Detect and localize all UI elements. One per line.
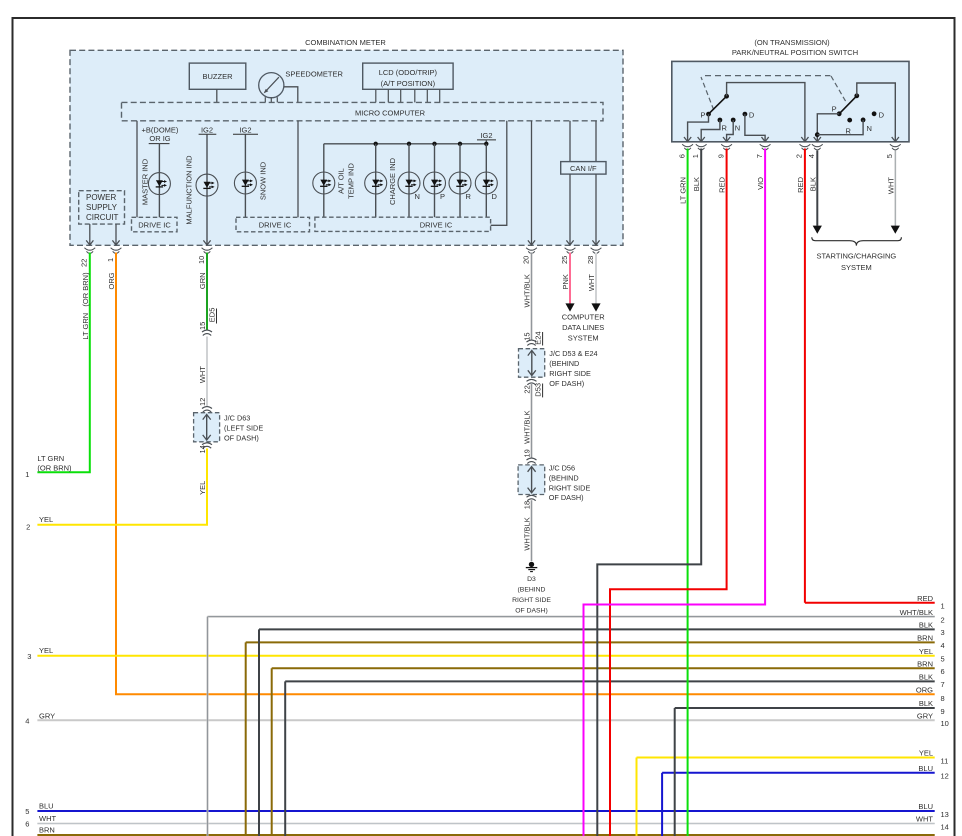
svg-text:7: 7 (941, 680, 945, 689)
wire VIO pin 7 long run (584, 149, 766, 836)
combination meter block (70, 50, 623, 245)
connector 12 (202, 407, 212, 412)
switch S1 (left) (724, 94, 729, 99)
svg-text:13: 13 (941, 810, 949, 819)
svg-text:MALFUNCTION IND: MALFUNCTION IND (185, 155, 194, 225)
svg-text:1: 1 (106, 258, 115, 262)
pin 20 combination meter (526, 248, 537, 254)
svg-text:E24: E24 (533, 331, 542, 344)
svg-text:COMBINATION METER: COMBINATION METER (305, 38, 386, 47)
wire YEL row 5 (37, 655, 934, 657)
wire CAN I/F pin 28 (595, 174, 597, 245)
wire LT GRN (OR BRN) pin 22 (37, 253, 89, 473)
connector 18 (527, 495, 537, 500)
terminal R (left) (718, 118, 723, 123)
drive IC 3 (315, 217, 491, 231)
wire BRN row 4 (246, 641, 935, 643)
svg-text:(BEHIND: (BEHIND (549, 359, 579, 368)
wire BRN row 6 (272, 667, 935, 669)
wire IG2 bus (324, 143, 487, 145)
terminal D (right, open) (872, 111, 877, 116)
svg-text:SYSTEM: SYSTEM (568, 334, 599, 343)
svg-text:WHT: WHT (886, 177, 895, 194)
junction block J/C D56 (518, 465, 545, 495)
svg-text:TEMP IND: TEMP IND (347, 163, 356, 199)
junction block J/C D53 & E24 (519, 349, 545, 378)
svg-text:P: P (440, 192, 445, 201)
wire vertical BLU row 12 (661, 773, 663, 836)
svg-text:RED: RED (917, 594, 933, 603)
svg-text:19: 19 (522, 449, 531, 457)
wire WHT pin 5 to starting/charging system (894, 151, 896, 226)
connector 19 (527, 458, 537, 463)
pin 2 park/neutral switch (801, 137, 808, 142)
wire PNK pin 25 (569, 253, 571, 304)
svg-text:GRN: GRN (198, 272, 207, 289)
svg-text:IG2: IG2 (480, 131, 492, 140)
switch S2 (right) (854, 93, 859, 98)
svg-text:RIGHT SIDE: RIGHT SIDE (512, 597, 551, 604)
svg-text:22: 22 (80, 259, 89, 267)
svg-text:A/T OIL: A/T OIL (337, 168, 346, 194)
pin 22 combination meter (84, 248, 95, 254)
svg-text:7: 7 (755, 154, 764, 158)
svg-text:DRIVE IC: DRIVE IC (259, 221, 292, 230)
svg-text:GRY: GRY (39, 712, 55, 721)
micro computer block (122, 102, 604, 120)
svg-text:WHT: WHT (916, 815, 933, 824)
pin 10 combination meter (202, 248, 213, 254)
svg-text:RIGHT SIDE: RIGHT SIDE (549, 483, 591, 492)
svg-text:R: R (466, 192, 472, 201)
LED master indicator (158, 144, 160, 218)
svg-text:9: 9 (716, 154, 725, 158)
svg-text:BLK: BLK (919, 673, 933, 682)
ground D3 (529, 562, 534, 567)
wire vertical YEL row 11 (636, 758, 638, 836)
svg-text:P: P (832, 105, 837, 114)
terminal P (right) (837, 111, 842, 116)
svg-text:SUPPLY: SUPPLY (86, 203, 118, 212)
svg-text:(A/T POSITION): (A/T POSITION) (381, 79, 436, 88)
wire micro computer to drive IC 2 (297, 121, 299, 218)
wire LT GRN pin 6 long vertical (687, 149, 689, 836)
svg-text:BLU: BLU (918, 764, 933, 773)
wire WHT row 14 (37, 823, 934, 825)
svg-text:14: 14 (941, 822, 949, 831)
svg-text:D: D (879, 110, 885, 119)
svg-text:PARK/NEUTRAL POSITION SWITCH: PARK/NEUTRAL POSITION SWITCH (732, 48, 858, 57)
svg-text:LT GRN (OR BRN): LT GRN (OR BRN) (81, 272, 90, 340)
svg-text:DATA LINES: DATA LINES (562, 323, 604, 332)
svg-text:MASTER IND: MASTER IND (141, 158, 150, 205)
wire micro computer to drive IC 3 (491, 121, 507, 226)
connector 22 / D53 (527, 379, 537, 384)
svg-text:YEL: YEL (39, 646, 53, 655)
svg-text:WHT: WHT (198, 366, 207, 383)
svg-text:YEL: YEL (919, 749, 933, 758)
svg-text:4: 4 (807, 154, 816, 158)
svg-text:WHT/BLK: WHT/BLK (523, 517, 532, 550)
svg-text:BLK: BLK (692, 177, 701, 191)
svg-text:2: 2 (941, 615, 945, 624)
connector 14 (202, 443, 212, 448)
terminal N (left) (731, 118, 736, 123)
LED malfunction indicator (206, 134, 208, 244)
svg-text:28: 28 (586, 256, 595, 264)
wire ORG pin 1 to row 8 (116, 253, 935, 695)
svg-text:D53: D53 (533, 383, 542, 397)
svg-text:BLK: BLK (919, 621, 933, 630)
wire speedometer to micro computer (284, 87, 298, 103)
wire BLK row 9 (675, 707, 935, 709)
LED D indicator (485, 144, 487, 217)
svg-text:1: 1 (25, 470, 29, 479)
svg-text:BRN: BRN (917, 634, 933, 643)
svg-text:STARTING/CHARGING: STARTING/CHARGING (817, 252, 897, 261)
pin 9 park/neutral switch (723, 137, 730, 142)
terminal P (left) (706, 112, 711, 117)
svg-text:15: 15 (198, 322, 207, 330)
svg-text:IG2: IG2 (239, 125, 251, 134)
wire WHT/BLK to ground D3 (531, 500, 533, 561)
wire YEL row 11 (637, 757, 935, 759)
svg-text:(OR BRN): (OR BRN) (37, 463, 72, 472)
wire GRN pin 10 (206, 253, 208, 331)
svg-text:12: 12 (198, 398, 207, 406)
wires LCD to micro computer (375, 89, 377, 102)
svg-text:5: 5 (941, 655, 945, 664)
wire WHT/BLK row 2 (208, 616, 935, 618)
wire micro computer to CAN I/F (569, 121, 571, 162)
svg-text:GRY: GRY (917, 712, 933, 721)
LED charge indicator (375, 144, 377, 217)
svg-text:VIO: VIO (756, 177, 765, 190)
svg-text:BRN: BRN (39, 826, 55, 835)
speedometer M1 (259, 73, 284, 98)
wire BLK pin 4 to starting/charging system (816, 151, 818, 226)
wire buzzer to micro computer (216, 89, 218, 102)
wire BLU row 13 (37, 810, 934, 812)
wire BLK row 7 (285, 680, 935, 682)
svg-text:ED5: ED5 (208, 308, 217, 323)
svg-text:3: 3 (941, 628, 945, 637)
svg-text:20: 20 (521, 256, 530, 264)
svg-text:1: 1 (941, 602, 945, 611)
svg-text:(ON TRANSMISSION): (ON TRANSMISSION) (754, 38, 830, 47)
switch linkage (dashed) (701, 77, 714, 110)
svg-text:YEL: YEL (919, 647, 933, 656)
svg-text:SNOW IND: SNOW IND (259, 161, 268, 200)
svg-text:PNK: PNK (561, 274, 570, 289)
svg-text:OF DASH): OF DASH) (515, 608, 547, 615)
svg-text:6: 6 (941, 667, 945, 676)
svg-text:D: D (492, 192, 498, 201)
pin 7 park/neutral switch (762, 137, 769, 142)
pin 1 park/neutral switch (698, 137, 705, 142)
svg-text:OF DASH): OF DASH) (224, 434, 259, 443)
svg-text:4: 4 (941, 641, 945, 650)
terminal R (right, open) (847, 118, 852, 123)
wire WHT pin 28 (595, 253, 597, 305)
wire vertical BLK row 7 (284, 681, 286, 836)
svg-text:BRN: BRN (917, 660, 933, 669)
svg-text:WHT/BLK: WHT/BLK (900, 608, 933, 617)
svg-text:YEL: YEL (39, 515, 53, 524)
svg-text:J/C D56: J/C D56 (549, 464, 575, 473)
svg-text:15: 15 (522, 332, 531, 340)
svg-text:CAN I/F: CAN I/F (570, 164, 597, 173)
junction block J/C D63 (194, 413, 220, 442)
svg-text:3: 3 (27, 652, 31, 661)
svg-text:SYSTEM: SYSTEM (841, 263, 872, 272)
wire micro computer pin 20 (531, 121, 533, 245)
wire BLU row 12 (662, 772, 935, 774)
connector 15 / E24 (527, 340, 537, 345)
wire power supply pin 1 (115, 224, 117, 245)
connector 15 / ED5 (202, 330, 212, 335)
svg-text:22: 22 (522, 385, 531, 393)
svg-text:OF DASH): OF DASH) (549, 493, 584, 502)
svg-text:10: 10 (197, 256, 206, 264)
pin 6 park/neutral switch (684, 137, 691, 142)
svg-text:BLU: BLU (918, 802, 933, 811)
wire WHT/BLK pin 20 (531, 253, 533, 341)
terminal D (left) (743, 112, 748, 117)
wire BLK row 3 (259, 628, 935, 630)
svg-text:6: 6 (25, 820, 29, 829)
wire vertical BLK row 3 (258, 629, 260, 836)
svg-text:+B(DOME): +B(DOME) (142, 125, 179, 134)
svg-text:DRIVE IC: DRIVE IC (138, 221, 171, 230)
svg-text:J/C D53 & E24: J/C D53 & E24 (549, 349, 597, 358)
svg-text:12: 12 (941, 772, 949, 781)
svg-text:2: 2 (795, 154, 804, 158)
pin 1 combination meter (111, 248, 122, 254)
pin 28 combination meter (591, 248, 602, 254)
svg-text:R: R (846, 126, 852, 135)
wire micro computer to drive IC 1 (136, 121, 138, 218)
svg-text:D3: D3 (527, 576, 536, 583)
svg-text:(LEFT SIDE: (LEFT SIDE (224, 424, 263, 433)
wire CAN I/F pin 25 (569, 174, 571, 245)
svg-text:OF DASH): OF DASH) (549, 379, 584, 388)
svg-text:CIRCUIT: CIRCUIT (86, 213, 119, 222)
wire YEL junction to node 2 (37, 449, 207, 525)
svg-text:LCD (ODO/TRIP): LCD (ODO/TRIP) (379, 68, 438, 77)
svg-text:WHT/BLK: WHT/BLK (523, 411, 532, 444)
drive IC 2 (236, 217, 310, 232)
wire vertical BLK row 9 (674, 708, 676, 836)
wire RED row 1 (805, 602, 935, 604)
svg-text:9: 9 (941, 707, 945, 716)
svg-text:RIGHT SIDE: RIGHT SIDE (549, 369, 591, 378)
wire GRY row 10 (37, 719, 934, 721)
svg-text:N: N (735, 124, 740, 133)
svg-text:DRIVE IC: DRIVE IC (420, 221, 453, 230)
LED R indicator (459, 144, 461, 217)
svg-text:R: R (722, 124, 728, 133)
svg-text:BUZZER: BUZZER (203, 72, 234, 81)
svg-text:(BEHIND: (BEHIND (518, 587, 546, 594)
svg-text:SPEEDOMETER: SPEEDOMETER (285, 70, 343, 79)
pin 4 park/neutral switch (814, 137, 821, 142)
drive IC 1 (132, 217, 178, 232)
LCD display (363, 63, 453, 89)
svg-text:WHT: WHT (39, 814, 56, 823)
svg-text:D: D (749, 110, 755, 119)
wire BRN row 15 (37, 834, 934, 836)
svg-text:5: 5 (885, 154, 894, 158)
svg-text:BLK: BLK (808, 177, 817, 191)
buzzer (189, 63, 246, 89)
svg-text:N: N (867, 124, 872, 133)
svg-text:CHARGE IND: CHARGE IND (388, 157, 397, 205)
svg-text:POWER: POWER (86, 193, 116, 202)
svg-text:N: N (415, 192, 420, 201)
svg-text:(BEHIND: (BEHIND (549, 473, 579, 482)
svg-text:5: 5 (25, 807, 29, 816)
svg-text:IG2: IG2 (201, 125, 213, 134)
wire vertical BRN row 6 (271, 668, 273, 836)
svg-text:RED: RED (718, 176, 727, 192)
pin 25 combination meter (565, 248, 576, 254)
wire power supply pin 22 (89, 224, 91, 245)
svg-text:ORG: ORG (107, 272, 116, 289)
svg-text:14: 14 (198, 445, 207, 453)
svg-text:LT GRN: LT GRN (37, 454, 64, 463)
svg-text:MICRO COMPUTER: MICRO COMPUTER (355, 109, 426, 118)
svg-text:BLU: BLU (39, 801, 54, 810)
LED A/T oil temp indicator (323, 144, 325, 217)
svg-text:ORG: ORG (916, 686, 933, 695)
svg-text:OR IG: OR IG (149, 134, 170, 143)
LED P indicator (434, 144, 436, 217)
svg-text:8: 8 (941, 694, 945, 703)
wire BLK pin 1 long run (597, 149, 701, 836)
svg-text:25: 25 (560, 256, 569, 264)
LED snow indicator (244, 134, 246, 217)
wire RED pin 9 long run (610, 149, 727, 836)
svg-text:COMPUTER: COMPUTER (562, 313, 606, 322)
svg-text:RED: RED (796, 176, 805, 192)
wire vertical BRN row 4 (245, 642, 247, 836)
pin 5 park/neutral switch (892, 137, 899, 142)
svg-text:YEL: YEL (198, 481, 207, 495)
svg-text:BLK: BLK (919, 699, 933, 708)
svg-text:1: 1 (691, 154, 700, 158)
wire vertical WHT/BLK row 2 (207, 617, 209, 836)
starting/charging system (812, 237, 902, 245)
svg-text:11: 11 (941, 756, 949, 765)
svg-text:10: 10 (941, 719, 949, 728)
svg-text:J/C D63: J/C D63 (224, 414, 250, 423)
svg-text:WHT/BLK: WHT/BLK (523, 274, 532, 307)
LED N indicator (408, 144, 410, 217)
svg-text:WHT: WHT (587, 274, 596, 291)
wire RED pin 2 to row 1 (804, 149, 806, 603)
svg-text:4: 4 (25, 716, 29, 725)
svg-text:18: 18 (522, 501, 531, 509)
svg-text:2: 2 (26, 523, 30, 532)
svg-text:P: P (700, 110, 705, 119)
power supply circuit block (79, 191, 125, 224)
terminal N (right) (861, 118, 866, 123)
svg-text:6: 6 (677, 154, 686, 158)
wire WHT junction chain (206, 337, 208, 408)
wire WHT/BLK mid chain (531, 384, 533, 459)
node P/N junction (815, 132, 820, 137)
svg-text:LT GRN: LT GRN (679, 177, 688, 204)
